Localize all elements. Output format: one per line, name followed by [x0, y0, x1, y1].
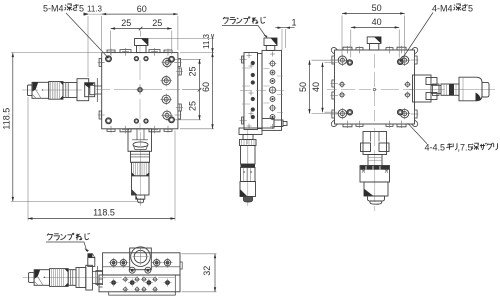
- corner M4 hole top-right: [169, 56, 175, 62]
- bottom plate small cross holes row lower: [124, 288, 157, 291]
- spindle tip into stage: [95, 78, 102, 102]
- edge tick crosses top: [108, 48, 172, 56]
- bottom plate small cross holes row upper: [124, 278, 157, 281]
- edge clamp tabs right: [178, 58, 181, 119]
- thimble wide: [360, 166, 390, 183]
- thimble knurl: [50, 269, 69, 287]
- end cap: [28, 85, 33, 96]
- counterbore hole corner BR: [399, 108, 410, 119]
- svg-text:50: 50: [298, 82, 308, 92]
- counterbore hole corner TR: [399, 55, 410, 66]
- boss circles: [131, 247, 151, 267]
- barrel: [441, 84, 459, 95]
- body: [241, 146, 256, 165]
- edge clamp tabs top: [343, 47, 406, 50]
- barrel: [368, 155, 382, 166]
- svg-text:4-M4: 4-M4: [432, 4, 453, 14]
- dimension 118.5 left (view A): [11, 53, 141, 202]
- spindle block: [364, 182, 388, 196]
- label 5-M4 depth 5: [43, 4, 109, 59]
- left plate small cross holes: [249, 64, 254, 117]
- svg-text:5: 5: [468, 4, 473, 14]
- dimension 40 left (view C): [321, 63, 337, 113]
- corner M4 hole bottom-right: [169, 117, 175, 123]
- dimension 25/25 right (view A): [175, 59, 201, 120]
- counterbore hole corner BL: [337, 108, 348, 119]
- svg-text:118.5: 118.5: [1, 108, 11, 130]
- bracket plate: [86, 265, 93, 290]
- counterbore hole 2: [161, 75, 172, 86]
- micrometer MD1 (left, horizontal): [23, 265, 105, 290]
- M4 hole BL: [347, 109, 353, 115]
- right plate holes with crosses: [269, 61, 275, 119]
- dimension 118.5 bottom (view A): [28, 97, 175, 221]
- thimble knurl: [49, 82, 63, 100]
- bottom right clamp block: [262, 119, 274, 129]
- centerline: [374, 128, 376, 211]
- bracket: [128, 129, 152, 152]
- clamp screw on top: [264, 38, 277, 46]
- svg-text:1: 1: [291, 18, 296, 28]
- knob on top edge of view C: [367, 37, 381, 50]
- bracket: [413, 75, 432, 102]
- right end step: [175, 262, 182, 292]
- corner M4 hole bottom-left: [106, 118, 112, 124]
- centerline: [140, 132, 142, 206]
- centerline: [23, 277, 105, 279]
- flange: [76, 268, 86, 288]
- stem: [243, 135, 253, 140]
- micrometer MB1 (bottom of side view, vertical): [239, 128, 262, 206]
- counterbore hole corner TL (4-4.5): [337, 55, 348, 66]
- dimension 50 left (view C): [308, 60, 338, 113]
- left plate end tabs: [242, 56, 244, 124]
- dimension 40 top (view C): [351, 26, 399, 57]
- svg-text:4-4.5: 4-4.5: [425, 143, 446, 153]
- top ring: [240, 140, 257, 146]
- label 4-4.5 drill 7.5 counterbore (view C): [408, 123, 498, 152]
- svg-text:40: 40: [372, 17, 382, 27]
- centerline: [409, 89, 495, 91]
- clamp screw (view D): [88, 254, 95, 267]
- svg-text:40: 40: [311, 82, 321, 92]
- counterbore hole column: hole 1: [161, 57, 172, 68]
- right plate: [262, 50, 282, 130]
- left end step: [96, 271, 103, 288]
- center vertical dashed line: [139, 46, 141, 131]
- svg-text:25: 25: [188, 66, 198, 76]
- spindle into stage: [92, 266, 102, 286]
- internal dovetail line top plate: [103, 266, 180, 268]
- cap: [368, 196, 385, 201]
- edge clamp tabs left: [332, 56, 335, 118]
- centerline across plates: [104, 277, 176, 279]
- bottom plate: [99, 275, 180, 292]
- thimble body: [459, 77, 482, 101]
- svg-text:11.3: 11.3: [87, 4, 103, 13]
- knob on top edge of view A: [135, 39, 149, 53]
- mount flange: [239, 128, 262, 135]
- edge tick crosses bottom: [108, 126, 172, 134]
- micrometer MA1 (left, horizontal): [22, 78, 102, 102]
- stage body square: [335, 50, 415, 124]
- corner tabs (diagonal): [331, 47, 418, 126]
- end cap: [29, 273, 34, 283]
- top plate hole cross ticks: [109, 258, 173, 268]
- barrel: [131, 151, 150, 162]
- micrometer MC2 (bottom, vertical): [360, 128, 390, 211]
- counterbore hole 3: [161, 94, 172, 105]
- centerline: [22, 89, 82, 91]
- flange ellipse: [133, 142, 148, 147]
- barrel: [68, 270, 76, 286]
- middle strip: [258, 54, 263, 129]
- dimension 32 (view D right): [182, 254, 217, 292]
- top plate screw holes: [110, 260, 170, 266]
- svg-text:5: 5: [79, 4, 84, 14]
- svg-text:50: 50: [372, 3, 382, 13]
- dimension 60 right + 11.3 right (view A): [148, 34, 214, 129]
- label clamp screw (view D) + leader: [46, 233, 90, 252]
- barrel dark knurl band: [449, 84, 454, 95]
- svg-text:5-M4: 5-M4: [43, 4, 64, 14]
- svg-text:32: 32: [202, 266, 212, 276]
- small holes mid-right edge: [404, 81, 411, 99]
- washer rings below housing: [129, 267, 151, 273]
- spindle block: [85, 83, 95, 97]
- dimension 25/25 top (view A): [111, 27, 172, 55]
- svg-text:25: 25: [188, 101, 198, 111]
- dark band: [241, 164, 256, 168]
- ratchet chamfer shading: [33, 82, 39, 91]
- M4 hole BR: [397, 109, 403, 115]
- micrometer MC1 (right, horizontal): [409, 75, 495, 102]
- label clamp screw (view B) + leader: [222, 17, 268, 38]
- left plate: [244, 53, 258, 130]
- center horizontal dashed line: [96, 89, 180, 91]
- lower block: [240, 182, 256, 197]
- barrel: [63, 83, 77, 98]
- edge tick crosses left/right: [331, 56, 419, 117]
- lower body: [132, 176, 150, 195]
- spindle lines inside bracket: [132, 129, 148, 140]
- tip: [244, 197, 253, 203]
- label 4-M4 depth 5 (view C): [400, 4, 473, 62]
- bottom plate dark screws: [111, 280, 170, 285]
- dimension 50 top (view C): [342, 12, 405, 56]
- svg-text:25: 25: [152, 18, 162, 28]
- counterbore hole 4: [161, 110, 172, 121]
- boss housing: [130, 248, 152, 270]
- edge clamp tabs right: [415, 56, 418, 118]
- stage body square: [102, 53, 178, 129]
- edge tick crosses top/bottom: [344, 46, 405, 53]
- svg-text:,7.5: ,7.5: [458, 143, 473, 153]
- ratchet body: [32, 82, 49, 98]
- svg-text:60: 60: [137, 4, 147, 14]
- edge clamp tabs bottom: [343, 124, 406, 127]
- end cap: [482, 82, 489, 97]
- centerlines dash-dot: [327, 89, 412, 91]
- bottom lower lip: [109, 292, 176, 295]
- edge clamp tabs top: [107, 50, 172, 53]
- small holes top pair: [134, 56, 148, 60]
- micrometer MA2 (bottom, vertical): [128, 129, 152, 206]
- tip: [136, 195, 145, 199]
- edge clamp tabs left: [99, 58, 102, 119]
- M4 hole TR: [397, 59, 403, 65]
- mounting bracket: [77, 79, 89, 101]
- svg-text:118.5: 118.5: [93, 208, 115, 218]
- bracket tabs: [426, 78, 437, 85]
- horizontal tick rows across plates: [242, 68, 283, 113]
- svg-text:11.3: 11.3: [202, 33, 211, 49]
- corner M4 hole top-left (5-M4): [106, 56, 112, 62]
- small holes mid-left edge: [339, 81, 346, 99]
- dimension 11.3 top-left (view A): [84, 13, 107, 77]
- svg-text:25: 25: [121, 18, 131, 28]
- left plate hole column: [251, 61, 255, 119]
- svg-text:60: 60: [201, 82, 211, 92]
- M4 hole TL: [347, 60, 353, 66]
- center hole: [136, 85, 145, 94]
- edge tick crosses left/right: [98, 59, 183, 119]
- top plate: [103, 253, 180, 275]
- knurl section: [241, 168, 256, 182]
- bracket tabs: [361, 143, 371, 152]
- small holes bottom pair: [134, 119, 148, 123]
- edge clamp tabs bottom: [107, 129, 172, 132]
- thimble knurl: [132, 162, 150, 176]
- ratchet body: [34, 270, 49, 286]
- bracket: [363, 132, 387, 155]
- centerline: [247, 130, 249, 206]
- dimension 60 top (view A): [102, 13, 178, 50]
- dimension 1 (view B top): [275, 27, 295, 51]
- dark knurl band: [361, 165, 390, 169]
